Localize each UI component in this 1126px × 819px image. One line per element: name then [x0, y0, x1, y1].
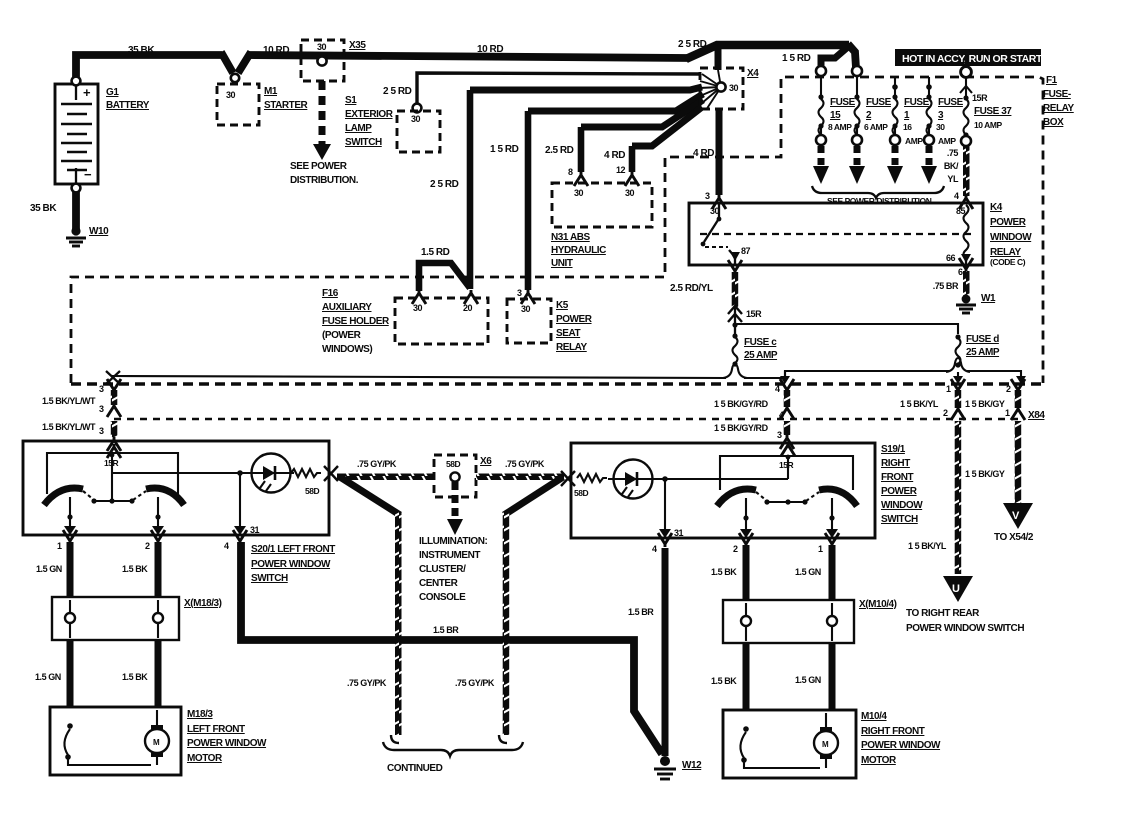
svg-text:1.5 BR: 1.5 BR [433, 625, 459, 635]
svg-text:3: 3 [938, 110, 944, 121]
wire crossing patch left [395, 630, 402, 650]
wire 4 RD down to N31 pin 12 [629, 146, 636, 172]
svg-text:16: 16 [903, 122, 912, 132]
wire thin distribution line right [744, 371, 949, 378]
svg-text:4: 4 [775, 384, 780, 394]
svg-text:1.5 GN: 1.5 GN [795, 567, 821, 577]
motor M18/3 box [50, 707, 181, 775]
svg-text:N31 ABS: N31 ABS [551, 232, 590, 243]
svg-text:X(M10/4): X(M10/4) [859, 599, 897, 610]
wire trunk 2.5 RD corner to fuse box [686, 45, 849, 59]
svg-text:2: 2 [1006, 384, 1011, 394]
wire 1.5 RD jumper F16 [419, 263, 470, 291]
svg-text:1 5 BK/GY/RD: 1 5 BK/GY/RD [714, 423, 769, 433]
svg-text:3: 3 [517, 288, 522, 298]
svg-text:FUSE HOLDER: FUSE HOLDER [322, 316, 390, 327]
svg-text:30: 30 [574, 188, 584, 198]
svg-text:1 5 BK/GY/RD: 1 5 BK/GY/RD [714, 399, 769, 409]
svg-text:BATTERY: BATTERY [106, 100, 150, 111]
fuse 3 [928, 77, 930, 96]
svg-text:RELAY: RELAY [1043, 103, 1075, 114]
wire .75 GY/PK right drop [504, 477, 563, 515]
wire 1.5 BR right switch pin 4 [662, 548, 669, 756]
wire 1.5 BK left [155, 542, 162, 598]
svg-text:2.5 RD: 2.5 RD [545, 145, 574, 156]
wire 1.5 GN right [829, 545, 836, 601]
svg-text:35 BK: 35 BK [30, 203, 57, 214]
svg-text:(CODE C): (CODE C) [990, 257, 1026, 267]
svg-text:FUSE: FUSE [938, 97, 964, 108]
wire 1.5 BR trunk [241, 542, 662, 754]
relay switch arm [718, 204, 720, 218]
svg-text:1 5 BK/GY: 1 5 BK/GY [965, 399, 1005, 409]
svg-text:FUSE 37: FUSE 37 [974, 106, 1012, 117]
wire 2.5 RD drop into X4 [715, 45, 722, 70]
svg-text:2 5 RD: 2 5 RD [678, 39, 707, 50]
arrow U [943, 576, 973, 602]
svg-text:31: 31 [250, 525, 260, 535]
wire 2.5 RD/YL K4 pin87 down [728, 260, 742, 274]
svg-text:1.5 GN: 1.5 GN [36, 564, 62, 574]
svg-text:1.5 BK: 1.5 BK [122, 672, 148, 682]
svg-text:HYDRAULIC: HYDRAULIC [551, 245, 606, 256]
svg-text:10 AMP: 10 AMP [974, 120, 1002, 130]
svg-text:F16: F16 [322, 288, 339, 299]
svg-text:30: 30 [413, 303, 423, 313]
svg-text:1.5 BR: 1.5 BR [628, 607, 654, 617]
svg-text:X84: X84 [1028, 410, 1045, 421]
svg-text:RIGHT: RIGHT [881, 458, 910, 469]
node X input right switch [561, 471, 575, 486]
svg-text:58D: 58D [446, 459, 461, 469]
arrow V [1003, 503, 1033, 529]
connector X35 [301, 40, 344, 81]
svg-text:1: 1 [946, 384, 951, 394]
svg-text:M: M [153, 738, 160, 747]
svg-text:4: 4 [779, 410, 784, 420]
svg-text:1.5 BK: 1.5 BK [711, 676, 737, 686]
svg-text:WINDOW: WINDOW [881, 500, 923, 511]
svg-text:M: M [822, 740, 829, 749]
svg-text:3: 3 [99, 426, 104, 436]
svg-text:W10: W10 [89, 226, 109, 237]
rocker right arc right switch [819, 489, 857, 506]
svg-text:1 5 BK/YL: 1 5 BK/YL [900, 399, 939, 409]
SECTION:CENTERBOTTOM [241, 455, 702, 779]
brace see power distribution [812, 186, 944, 198]
wire 2.5 RD down to N31 pin 8 [578, 127, 585, 172]
svg-text:FUSE d: FUSE d [966, 334, 999, 345]
svg-text:2: 2 [943, 408, 948, 418]
svg-text:6: 6 [958, 267, 963, 277]
fuse 15 [816, 66, 826, 76]
svg-text:FUSE: FUSE [866, 97, 892, 108]
hydraulic unit N31 [574, 172, 588, 186]
motor contact arc right [743, 726, 749, 732]
wire 1.5 RD jumper fuse15 [821, 46, 849, 68]
relay coil [964, 205, 969, 259]
svg-text:SEE POWER DISTRIBUTION: SEE POWER DISTRIBUTION [827, 196, 932, 206]
svg-text:X(M18/3): X(M18/3) [184, 598, 222, 609]
lamp symbol right [608, 478, 666, 480]
fuse 2 [852, 66, 862, 76]
svg-text:30: 30 [729, 83, 739, 93]
svg-text:LAMP: LAMP [345, 123, 372, 134]
rocker left arc [44, 488, 83, 505]
svg-text:1.5 RD: 1.5 RD [421, 247, 450, 258]
svg-text:K4: K4 [990, 202, 1003, 213]
wire 2.5 RD down to F16 pin 20 [467, 90, 474, 289]
wire 1.5 BK lower left [155, 640, 162, 708]
svg-text:FUSE c: FUSE c [744, 337, 777, 348]
svg-text:.75 GY/PK: .75 GY/PK [357, 459, 397, 469]
svg-text:POWER: POWER [990, 217, 1027, 228]
lamp symbol [240, 472, 294, 474]
svg-text:8: 8 [568, 167, 573, 177]
wire 4 RD run to X4 [632, 107, 702, 146]
svg-text:SEAT: SEAT [556, 328, 580, 339]
svg-text:POWER WINDOW SWITCH: POWER WINDOW SWITCH [906, 623, 1024, 634]
fuse 1 [894, 77, 896, 96]
svg-text:10 RD: 10 RD [477, 44, 503, 55]
wire 1.5 GN left [67, 542, 74, 598]
svg-text:35 BK: 35 BK [128, 45, 155, 56]
resistor 58D right [577, 474, 607, 482]
switch S19/1 box [571, 443, 875, 538]
wire 1.5 BK right [743, 545, 750, 601]
svg-text:MOTOR: MOTOR [861, 755, 897, 766]
brace continued [383, 742, 523, 756]
svg-text:CLUSTER/: CLUSTER/ [419, 564, 466, 575]
svg-text:W1: W1 [981, 293, 996, 304]
bus dashed main [71, 382, 1043, 386]
svg-text:58D: 58D [305, 486, 320, 496]
svg-text:.75 GY/PK: .75 GY/PK [455, 678, 495, 688]
svg-text:15: 15 [830, 110, 841, 121]
node arrow to bus at 958 [957, 372, 959, 377]
svg-text:CONSOLE: CONSOLE [419, 592, 466, 603]
motor M10/4 box [723, 710, 856, 778]
svg-text:2: 2 [145, 541, 150, 551]
wire 2.5 RD run to X4 lower [581, 100, 703, 127]
svg-text:4: 4 [652, 544, 657, 554]
svg-text:BOX: BOX [1043, 117, 1064, 128]
svg-text:FUSE-: FUSE- [1043, 89, 1071, 100]
node pin 3 entry [107, 437, 121, 451]
rocker left arc right switch [717, 489, 756, 506]
wire .75 BK/YL fuse37 to K4 [963, 146, 970, 196]
svg-text:.75: .75 [947, 148, 959, 158]
svg-text:87: 87 [741, 246, 751, 256]
svg-text:30: 30 [317, 42, 327, 52]
connector X4 [700, 68, 743, 109]
svg-text:CONTINUED: CONTINUED [387, 763, 443, 774]
svg-text:2: 2 [733, 544, 738, 554]
svg-text:2.5 RD/YL: 2.5 RD/YL [670, 283, 713, 294]
svg-text:.75 BR: .75 BR [933, 281, 959, 291]
svg-text:30: 30 [521, 304, 531, 314]
svg-text:AMP: AMP [905, 136, 923, 146]
contact pin 1 [69, 497, 71, 526]
svg-text:15R: 15R [779, 460, 794, 470]
svg-text:M1: M1 [264, 86, 278, 97]
motor symbol right [820, 727, 832, 732]
svg-text:1: 1 [904, 110, 910, 121]
svg-text:1.5 GN: 1.5 GN [35, 672, 61, 682]
svg-text:BK/: BK/ [944, 161, 959, 171]
starter M1 [217, 84, 259, 125]
svg-text:31: 31 [674, 528, 684, 538]
svg-text:WINDOW: WINDOW [990, 232, 1032, 243]
fuse arrows to power distribution [821, 146, 929, 167]
wire 1.5 GN lower right [829, 643, 836, 711]
svg-text:1.5 BK: 1.5 BK [122, 564, 148, 574]
node starter terminal [231, 74, 239, 82]
svg-text:−: − [84, 167, 92, 182]
svg-text:3: 3 [99, 384, 104, 394]
svg-text:ILLUMINATION:: ILLUMINATION: [419, 536, 488, 547]
wire 4 RD X4 to K4 pin 3 [716, 109, 723, 195]
node arrow to bus at 785 [784, 371, 786, 378]
rocker linkage right [756, 492, 767, 501]
switch inner frame [47, 453, 178, 496]
connector X(M10/4) [723, 600, 854, 643]
svg-text:INSTRUMENT: INSTRUMENT [419, 550, 480, 561]
svg-text:1: 1 [1005, 408, 1010, 418]
label HOT IN ACCY RUN OR START [895, 49, 1041, 66]
svg-text:3: 3 [777, 430, 782, 440]
svg-text:S19/1: S19/1 [881, 444, 906, 455]
svg-text:AMP: AMP [938, 136, 956, 146]
svg-text:W12: W12 [682, 760, 702, 771]
wire end hook left [391, 735, 399, 743]
contact pin 2 right [745, 498, 747, 529]
svg-text:15R: 15R [746, 309, 762, 319]
svg-text:S1: S1 [345, 95, 357, 106]
svg-text:X35: X35 [349, 40, 366, 51]
svg-text:+: + [83, 85, 91, 100]
svg-text:1.5 GN: 1.5 GN [795, 675, 821, 685]
wire lamp feed [111, 455, 113, 500]
svg-text:K5: K5 [556, 300, 569, 311]
svg-text:30: 30 [411, 114, 421, 124]
svg-text:1 5 RD: 1 5 RD [490, 144, 519, 155]
SECTION:RIGHTSWITCH [561, 442, 941, 778]
svg-text:M18/3: M18/3 [187, 709, 213, 720]
svg-text:POWER: POWER [556, 314, 593, 325]
svg-text:MOTOR: MOTOR [187, 753, 223, 764]
wire thin distribution line left [112, 376, 726, 378]
SECTION:LEFTSWITCH [23, 437, 338, 775]
wire 1.5 BK lower right [743, 643, 750, 711]
svg-text:SEE POWER: SEE POWER [290, 161, 348, 172]
wire 1.5 GN lower left [67, 640, 74, 708]
svg-text:(POWER: (POWER [322, 330, 362, 341]
svg-text:2: 2 [866, 110, 872, 121]
svg-text:25 AMP: 25 AMP [744, 350, 778, 361]
node arrow to bus at 1021 [1016, 376, 1026, 384]
motor contact arc [67, 723, 73, 729]
svg-text:8 AMP: 8 AMP [828, 122, 852, 132]
svg-text:X6: X6 [480, 456, 492, 467]
ground W1 [962, 295, 971, 304]
svg-text:1.5 BK/YL/WT: 1.5 BK/YL/WT [42, 422, 96, 432]
svg-text:1.5 BK: 1.5 BK [711, 567, 737, 577]
lamp junction right [662, 476, 668, 482]
wire trunk 10 RD [247, 55, 688, 58]
svg-text:30: 30 [936, 122, 945, 132]
svg-text:TO RIGHT REAR: TO RIGHT REAR [906, 608, 980, 619]
fuse 37 [961, 67, 972, 78]
wire X35 down dashed arrow [319, 81, 326, 144]
svg-text:1.5 BK/YL/WT: 1.5 BK/YL/WT [42, 396, 96, 406]
svg-text:POWER: POWER [881, 486, 918, 497]
node pin 3 entry right [781, 442, 795, 456]
bus dashed secondary [114, 418, 1018, 420]
node X junction left switch feed [106, 371, 120, 384]
svg-text:CENTER: CENTER [419, 578, 459, 589]
wire 1.5 RD down to K5 [525, 111, 532, 290]
ground W12 [660, 756, 670, 766]
switch inner frame right [720, 456, 853, 490]
rocker right arc [146, 488, 184, 505]
svg-text:U: U [952, 583, 960, 595]
svg-text:1 5 BK/GY: 1 5 BK/GY [965, 469, 1005, 479]
svg-text:58D: 58D [574, 488, 589, 498]
svg-text:LEFT FRONT: LEFT FRONT [187, 724, 245, 735]
wire 2.5 RD thin to S1 [417, 73, 700, 105]
wire 1.5 RD run to X4 [528, 94, 703, 111]
svg-text:25 AMP: 25 AMP [966, 347, 1000, 358]
fuse-relay box F1 dashed outline [71, 77, 1043, 383]
svg-text:RELAY: RELAY [556, 342, 588, 353]
switch S20/1 box [23, 441, 329, 535]
svg-text:1: 1 [57, 541, 62, 551]
svg-text:M10/4: M10/4 [861, 711, 887, 722]
svg-text:10 RD: 10 RD [263, 45, 289, 56]
svg-text:HOT IN ACCY, RUN OR START: HOT IN ACCY, RUN OR START [902, 53, 1043, 65]
svg-text:DISTRIBUTION.: DISTRIBUTION. [290, 175, 359, 186]
svg-text:FUSE: FUSE [830, 97, 856, 108]
motor symbol [151, 725, 163, 730]
svg-text:30: 30 [226, 90, 236, 100]
contact pin 1 right [831, 498, 833, 529]
node X4 fan rays [699, 70, 721, 110]
wire end hook right [499, 735, 507, 743]
svg-text:2 5 RD: 2 5 RD [383, 86, 412, 97]
wire thin to fuse d [737, 324, 958, 334]
svg-text:RIGHT FRONT: RIGHT FRONT [861, 726, 925, 737]
wire 35 BK battery to trunk [76, 55, 222, 82]
svg-text:FUSE: FUSE [904, 97, 930, 108]
svg-text:3: 3 [99, 404, 104, 414]
wire 2.5 RD run to X4 [470, 87, 702, 90]
svg-text:1: 1 [818, 544, 823, 554]
svg-text:4 RD: 4 RD [604, 150, 625, 161]
svg-text:POWER WINDOW: POWER WINDOW [861, 740, 941, 751]
svg-text:66: 66 [946, 253, 956, 263]
wire .75 GY/PK left horizontal [337, 474, 434, 481]
wire .75 GY/PK right horizontal [476, 474, 564, 481]
svg-text:SWITCH: SWITCH [881, 514, 918, 525]
fuse d [955, 334, 960, 339]
resistor to 58D [291, 469, 321, 477]
svg-text:2 5 RD: 2 5 RD [430, 179, 459, 190]
switch S1 [413, 104, 422, 113]
rocker linkage [83, 491, 94, 500]
svg-text:12: 12 [616, 165, 626, 175]
svg-text:4: 4 [224, 541, 229, 551]
svg-text:UNIT: UNIT [551, 258, 573, 269]
node 15R junction [732, 322, 737, 327]
wire 31 drop right [664, 479, 666, 529]
lamp junction [237, 470, 243, 476]
svg-text:20: 20 [463, 303, 473, 313]
wire 35 BK to ground [72, 192, 80, 230]
svg-text:.75 GY/PK: .75 GY/PK [347, 678, 387, 688]
svg-text:POWER WINDOW: POWER WINDOW [251, 559, 331, 570]
svg-text:S20/1 LEFT FRONT: S20/1 LEFT FRONT [251, 544, 335, 555]
svg-text:SWITCH: SWITCH [251, 573, 288, 584]
svg-text:30: 30 [625, 188, 635, 198]
svg-text:3: 3 [705, 191, 710, 201]
node starter dip [221, 52, 251, 73]
svg-text:TO X54/2: TO X54/2 [994, 532, 1034, 543]
svg-text:1 5 BK/YL: 1 5 BK/YL [908, 541, 947, 551]
svg-text:G1: G1 [106, 87, 119, 98]
svg-text:15R: 15R [972, 93, 988, 103]
svg-text:EXTERIOR: EXTERIOR [345, 109, 394, 120]
svg-text:WINDOWS): WINDOWS) [322, 344, 372, 355]
wire X6 dashed arrow down [452, 482, 459, 519]
svg-text:YL: YL [947, 174, 959, 184]
wire 31 drop [239, 473, 241, 526]
svg-text:AUXILIARY: AUXILIARY [322, 302, 372, 313]
node X output left switch [324, 466, 338, 481]
connector X6 [434, 455, 476, 497]
svg-text:4: 4 [954, 191, 959, 201]
svg-text:POWER WINDOW: POWER WINDOW [187, 738, 267, 749]
SECTION:MIDDLE [42, 90, 1045, 634]
wire .75 GY/PK left drop [340, 477, 400, 515]
wire crossing patch right [503, 630, 510, 650]
fuse c [732, 333, 737, 338]
svg-text:STARTER: STARTER [264, 100, 309, 111]
connector X(M18/3) [52, 597, 179, 640]
battery G1 [55, 84, 98, 184]
svg-text:6 AMP: 6 AMP [864, 122, 888, 132]
svg-text:X4: X4 [747, 68, 759, 79]
svg-text:F1: F1 [1046, 75, 1058, 86]
svg-text:SWITCH: SWITCH [345, 137, 382, 148]
contact pin 2 [157, 497, 159, 526]
svg-text:V: V [1012, 510, 1020, 522]
fuse holder F16 [412, 290, 426, 304]
svg-text:1 5 RD: 1 5 RD [782, 53, 811, 64]
svg-text:.75 GY/PK: .75 GY/PK [505, 459, 545, 469]
svg-text:FRONT: FRONT [881, 472, 914, 483]
SECTION:TOPLEFT [30, 40, 700, 246]
ground W10 [71, 226, 80, 235]
SECTION:TOPRIGHT [71, 39, 1075, 383]
